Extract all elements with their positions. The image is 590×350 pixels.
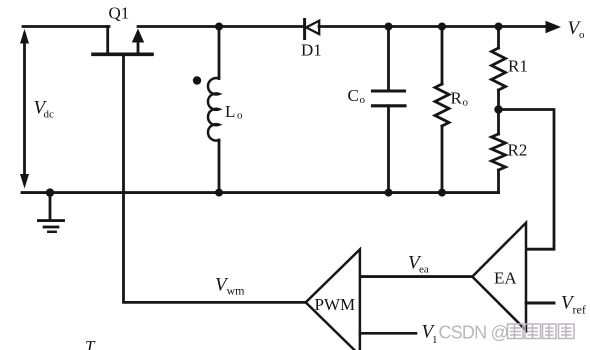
svg-text:R2: R2 [508,141,528,160]
ground [39,193,64,232]
svg-text:o: o [237,110,243,122]
wire bottom rail [22,191,499,194]
wire Vea from EA output to PWM input [360,275,472,278]
svg-text:o: o [579,29,585,41]
wire top rail left segment [23,25,109,28]
inductor phase dot [193,76,201,84]
svg-text:dc: dc [44,109,55,121]
node Vo arrowhead [546,21,562,33]
resistor R2 [492,110,506,193]
svg-text:R1: R1 [508,56,528,75]
svg-text:ea: ea [419,264,429,276]
svg-text:Q1: Q1 [109,3,130,22]
node top rail at Lo [215,23,223,31]
wire Vref input [526,302,554,305]
capacitor Co [373,27,406,193]
wire top rail from diode to output arrow [319,25,546,28]
node top rail at R1 [495,23,503,31]
node R1/R2 divider [494,105,502,113]
resistor Ro [435,27,449,193]
inductor Lo [208,27,219,193]
svg-text:CSDN @: CSDN @ [439,323,508,343]
svg-text:C: C [348,86,359,105]
watermark CSDN [439,323,575,343]
node bottom rail at Co [385,189,393,197]
svg-text:ref: ref [573,303,586,317]
svg-text:PWM: PWM [315,295,356,314]
node ground [46,188,54,196]
svg-text:R: R [451,89,463,108]
Vdc measure arrow [20,29,29,189]
wire feedback from R1/R2 node to EA input [499,110,555,250]
svg-text:o: o [360,94,366,106]
svg-text:D1: D1 [301,40,322,59]
svg-text:o: o [463,97,469,109]
op-amp EA [472,223,526,330]
svg-text:wm: wm [227,284,246,298]
svg-text:T: T [85,337,96,350]
svg-text:EA: EA [494,269,517,288]
comparator PWM [306,249,360,350]
resistor R1 [492,27,506,110]
svg-text:1: 1 [432,334,438,346]
wire Vt input [360,332,416,335]
node top rail at Co [385,23,393,31]
wire top rail from Q1 source to diode [138,25,304,28]
wire gate from PWM output to Q1 [124,56,306,302]
node bottom rail at Ro [438,189,446,197]
diode D1 [305,20,320,39]
node bottom rail at Lo [215,189,223,197]
node top rail at Ro [438,23,446,31]
transistor Q1 [93,27,152,55]
svg-text:L: L [225,102,235,121]
